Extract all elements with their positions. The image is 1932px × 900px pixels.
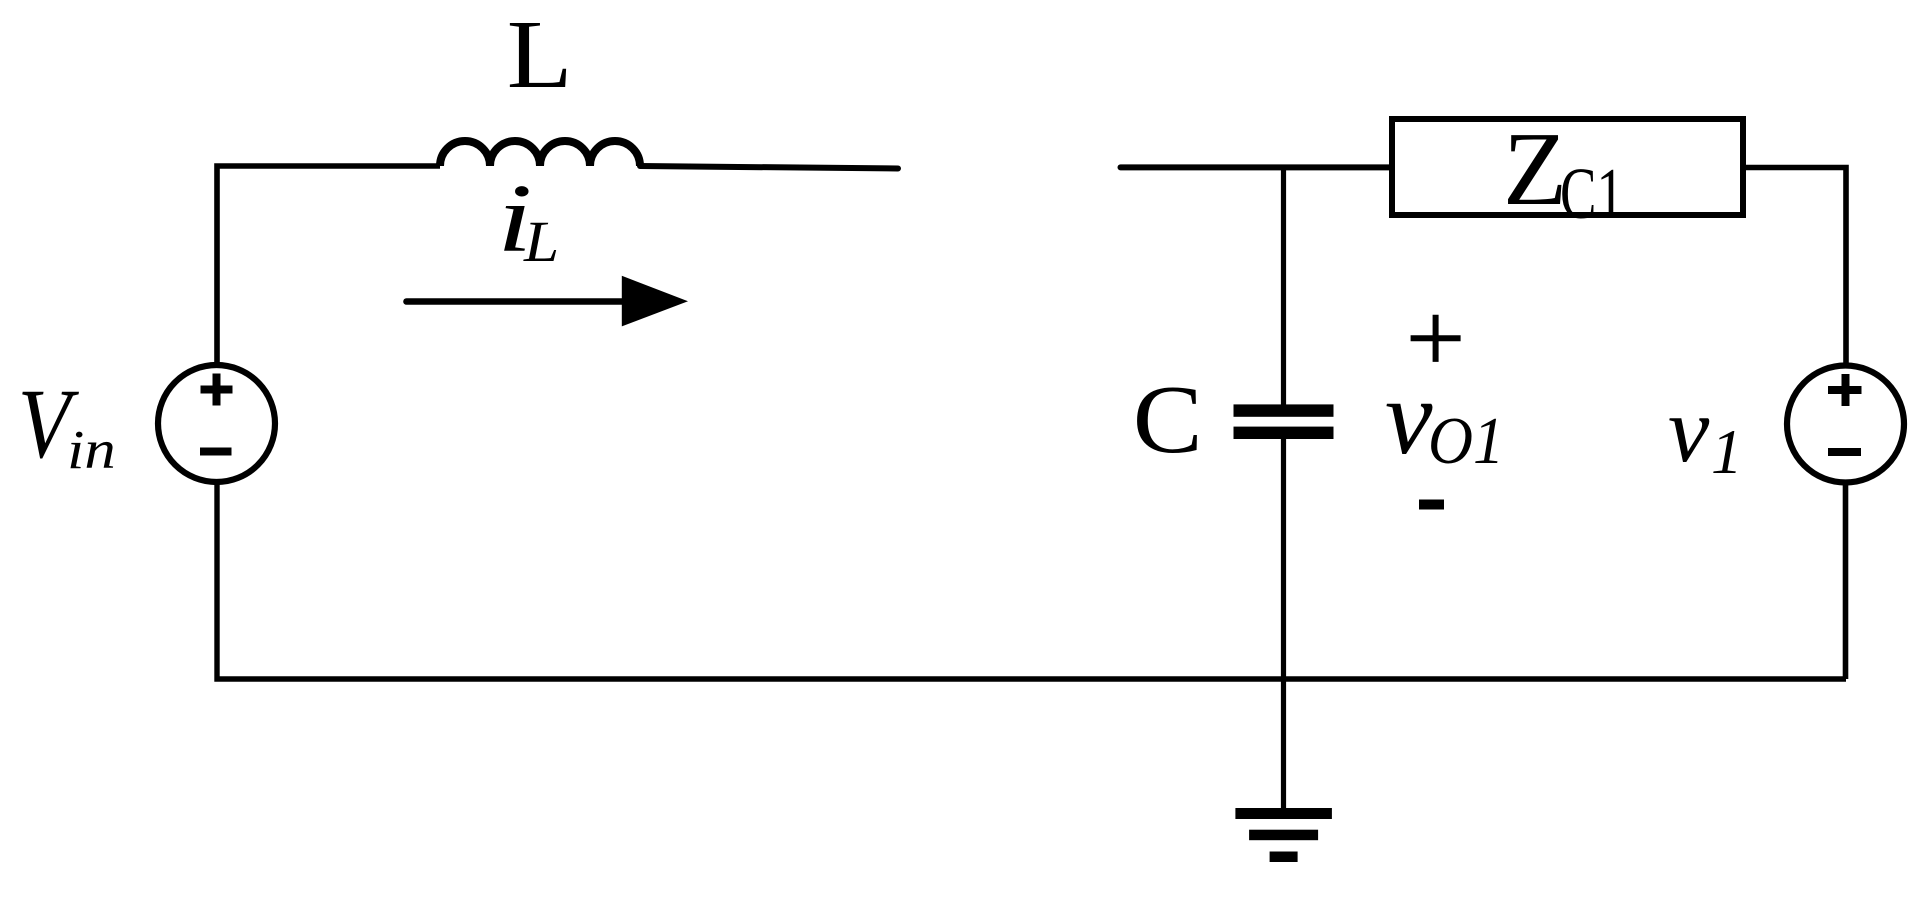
minus sign vO1 bbox=[1419, 500, 1444, 510]
plus sign vO1 bbox=[1411, 315, 1461, 362]
plus sign in Vin bbox=[201, 374, 233, 406]
wire top-left (Vin top to inductor) bbox=[217, 166, 440, 364]
svg-text:Z: Z bbox=[1503, 110, 1567, 227]
minus sign in v1 bbox=[1828, 448, 1861, 456]
svg-text:in: in bbox=[67, 419, 116, 481]
ground bbox=[1235, 808, 1332, 862]
source Vin circle bbox=[158, 365, 275, 482]
wire capacitor to ground bbox=[1281, 438, 1286, 809]
wire v1 bottom bbox=[1843, 484, 1849, 679]
source v1 circle bbox=[1787, 366, 1904, 483]
svg-text:v: v bbox=[1668, 379, 1710, 482]
arrow iL current direction bbox=[407, 276, 689, 327]
plus sign in v1 bbox=[1828, 374, 1862, 406]
svg-text:1: 1 bbox=[1711, 417, 1743, 487]
inductor L bbox=[440, 141, 640, 166]
wire box to right corner and down to v1 bbox=[1746, 168, 1846, 365]
minus sign in Vin bbox=[200, 448, 232, 456]
svg-text:L: L bbox=[523, 210, 559, 274]
svg-text:O1: O1 bbox=[1428, 403, 1504, 478]
svg-text:v: v bbox=[1385, 359, 1433, 477]
svg-text:L: L bbox=[507, 0, 573, 108]
wire inductor to switch gap bbox=[640, 166, 898, 169]
wire node down to capacitor bbox=[1281, 167, 1286, 405]
svg-text:C: C bbox=[1133, 365, 1203, 473]
svg-text:C1: C1 bbox=[1560, 154, 1624, 234]
bottom wire bbox=[217, 480, 1846, 679]
resistor box ZC1 bbox=[1392, 119, 1743, 215]
capacitor C plates bbox=[1234, 404, 1334, 439]
wire switch gap to node bbox=[1121, 164, 1390, 170]
